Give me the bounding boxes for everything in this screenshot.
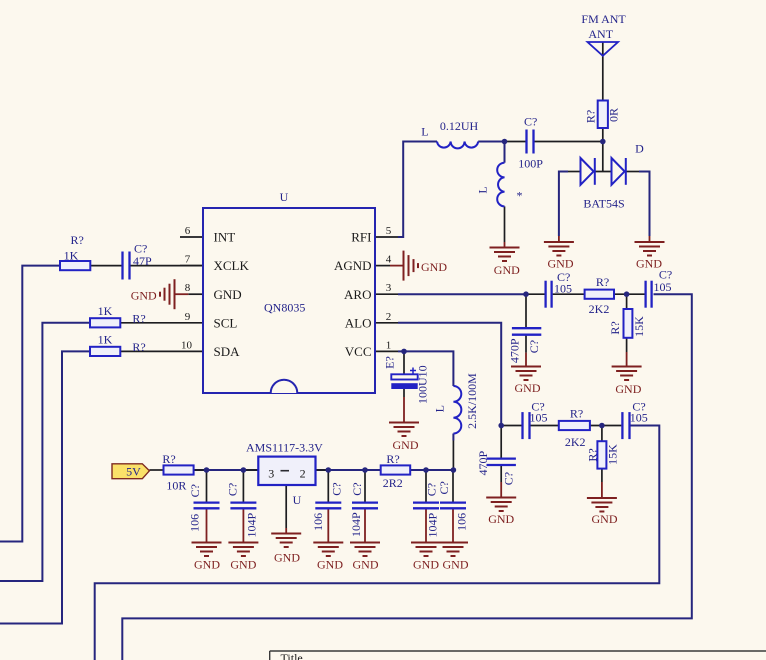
svg-text:470P: 470P (507, 338, 521, 363)
svg-text:106: 106 (188, 514, 202, 532)
svg-text:RFI: RFI (351, 230, 371, 245)
svg-text:C?: C? (330, 482, 344, 495)
svg-text:SDA: SDA (214, 344, 241, 359)
svg-text:106: 106 (311, 513, 325, 531)
svg-text:2: 2 (300, 466, 306, 480)
svg-text:GND: GND (515, 381, 541, 395)
svg-text:100U10: 100U10 (416, 365, 430, 404)
svg-text:GND: GND (131, 289, 157, 303)
svg-text:2K2: 2K2 (565, 435, 586, 449)
svg-text:C?: C? (437, 481, 451, 494)
svg-text:GND: GND (488, 512, 514, 526)
svg-text:GND: GND (353, 558, 379, 572)
svg-text:R?: R? (71, 233, 84, 247)
svg-text:2.5K/100M: 2.5K/100M (465, 373, 479, 429)
svg-text:470P: 470P (476, 451, 490, 476)
svg-text:QN8035: QN8035 (264, 301, 305, 315)
svg-text:C?: C? (524, 114, 537, 128)
svg-text:GND: GND (636, 257, 662, 271)
svg-text:R?: R? (584, 110, 598, 123)
svg-text:GND: GND (274, 550, 300, 564)
svg-text:R?: R? (386, 452, 399, 466)
svg-text:C?: C? (188, 484, 202, 497)
svg-text:0.12UH: 0.12UH (440, 119, 479, 133)
svg-text:104P: 104P (349, 512, 363, 537)
svg-text:104P: 104P (425, 513, 439, 538)
svg-text:L: L (476, 186, 490, 193)
svg-text:9: 9 (185, 311, 191, 323)
svg-text:R?: R? (570, 407, 583, 421)
svg-text:SCL: SCL (214, 315, 238, 330)
svg-text:R?: R? (596, 275, 609, 289)
svg-text:6: 6 (185, 225, 191, 237)
svg-text:GND: GND (413, 558, 439, 572)
svg-text:C?: C? (225, 483, 239, 496)
svg-text:105: 105 (630, 411, 648, 425)
svg-text:105: 105 (530, 411, 548, 425)
svg-text:GND: GND (421, 260, 447, 274)
svg-text:ALO: ALO (345, 315, 372, 330)
svg-text:3: 3 (386, 282, 392, 294)
svg-text:E?: E? (383, 356, 397, 369)
svg-text:10R: 10R (166, 479, 186, 493)
svg-text:5: 5 (386, 225, 392, 237)
svg-text:R?: R? (162, 452, 175, 466)
svg-text:C?: C? (502, 472, 516, 485)
svg-text:GND: GND (615, 382, 641, 396)
svg-text:7: 7 (185, 254, 191, 266)
svg-text:0R: 0R (607, 108, 621, 122)
svg-text:GND: GND (494, 263, 520, 277)
svg-text:105: 105 (654, 280, 672, 294)
svg-text:ANT: ANT (588, 27, 613, 41)
svg-text:GND: GND (443, 558, 469, 572)
svg-text:100P: 100P (518, 157, 543, 171)
svg-text:GND: GND (214, 287, 242, 302)
svg-text:47P: 47P (133, 254, 152, 268)
svg-text:105: 105 (554, 281, 572, 295)
svg-text:GND: GND (393, 438, 419, 452)
svg-text:1K: 1K (98, 333, 113, 347)
svg-text:5V: 5V (126, 465, 141, 479)
svg-text:1: 1 (386, 339, 392, 351)
svg-text:*: * (517, 189, 523, 203)
svg-text:C?: C? (350, 482, 364, 495)
svg-text:8: 8 (185, 282, 191, 294)
svg-text:AGND: AGND (334, 258, 372, 273)
svg-text:10: 10 (181, 339, 193, 351)
svg-text:15K: 15K (632, 316, 646, 337)
svg-text:U: U (280, 190, 289, 204)
svg-text:VCC: VCC (345, 344, 372, 359)
svg-text:15K: 15K (606, 444, 620, 465)
svg-text:R?: R? (608, 321, 622, 334)
svg-text:AMS1117-3.3V: AMS1117-3.3V (246, 441, 323, 455)
svg-text:1K: 1K (98, 304, 113, 318)
svg-text:GND: GND (194, 558, 220, 572)
svg-text:ARO: ARO (344, 287, 371, 302)
svg-text:2: 2 (386, 311, 392, 323)
svg-text:2R2: 2R2 (383, 476, 403, 490)
svg-text:C?: C? (527, 340, 541, 353)
svg-text:FM ANT: FM ANT (581, 12, 626, 26)
svg-text:L: L (433, 405, 447, 412)
svg-text:3: 3 (268, 466, 274, 480)
svg-text:U: U (293, 493, 302, 507)
svg-text:L: L (421, 125, 428, 139)
svg-text:106: 106 (455, 513, 469, 531)
svg-text:INT: INT (214, 230, 236, 245)
svg-text:GND: GND (548, 257, 574, 271)
svg-text:R?: R? (132, 340, 145, 354)
svg-text:R?: R? (586, 448, 600, 461)
svg-text:1K: 1K (64, 249, 79, 263)
svg-text:XCLK: XCLK (214, 258, 250, 273)
svg-text:GND: GND (317, 558, 343, 572)
svg-text:D: D (635, 142, 644, 156)
svg-text:Title: Title (281, 651, 303, 660)
svg-text:GND: GND (230, 558, 256, 572)
svg-text:2K2: 2K2 (589, 302, 610, 316)
svg-text:104P: 104P (245, 512, 259, 537)
svg-text:R?: R? (132, 312, 145, 326)
svg-text:GND: GND (592, 512, 618, 526)
svg-text:4: 4 (386, 254, 392, 266)
svg-text:BAT54S: BAT54S (583, 197, 624, 211)
